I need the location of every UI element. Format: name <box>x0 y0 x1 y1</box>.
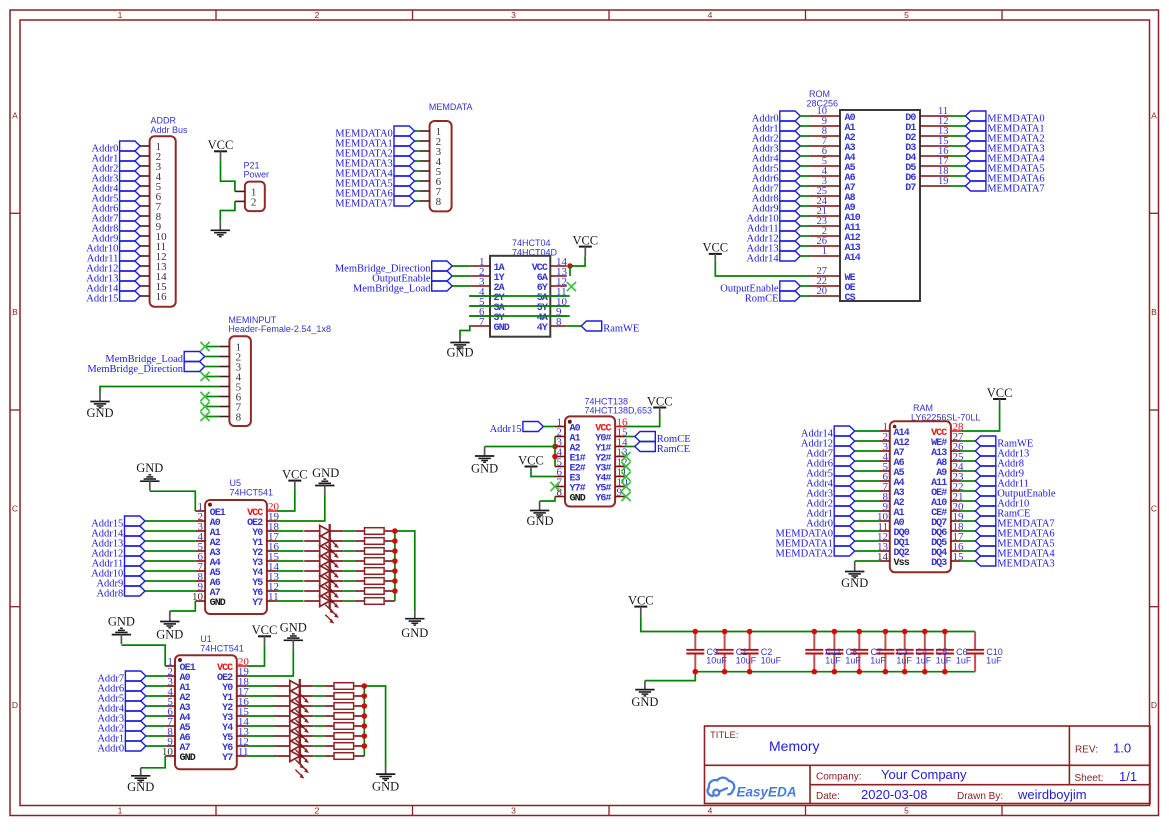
power flag VCC (U1 pin 20) <box>252 623 278 645</box>
svg-text:VCC: VCC <box>702 241 728 255</box>
net flag MEMDATA3 (ROM D3) <box>965 141 1044 154</box>
resistor on U1 Y2 <box>324 703 364 710</box>
svg-text:GND: GND <box>372 780 399 794</box>
power flag VCC (U5 pin 20) <box>282 467 308 489</box>
net flag Addr5 (ROM A5) <box>752 161 810 174</box>
wire U5 Y3 to LED <box>277 560 304 562</box>
svg-text:74HCT541: 74HCT541 <box>230 488 274 498</box>
net flag Addr14 (ADDR pin 15) <box>86 281 140 294</box>
svg-text:VCC: VCC <box>987 386 1013 400</box>
svg-text:GND: GND <box>280 621 307 635</box>
wire LED to resistor (U1 Y0) <box>313 685 324 687</box>
svg-text:GND: GND <box>494 323 510 334</box>
wire VCC to 74HCT04 pin 14 <box>570 256 585 266</box>
resistor on U1 Y4 <box>324 723 364 730</box>
wire LED to resistor (U1 Y1) <box>313 695 324 697</box>
LED on U5 Y3 <box>304 554 343 584</box>
net flag Addr1 (ADDR pin 2) <box>92 151 141 164</box>
net flag Addr7 (ROM A7) <box>752 181 810 194</box>
ground symbol below MEMINPUT wire <box>86 392 113 420</box>
net flag RamCE (74HCT138 Y1#) <box>635 442 690 455</box>
no-connect X 74HCT138 pin 7 (Y7#) <box>550 482 559 491</box>
svg-text:MEMDATA2: MEMDATA2 <box>776 548 834 559</box>
net flag Addr8 (ROM A8) <box>752 191 810 204</box>
ground symbol below U1 <box>127 768 154 794</box>
svg-text:4Y: 4Y <box>537 323 548 334</box>
svg-text:20: 20 <box>817 286 828 297</box>
svg-text:MemBridge_Direction: MemBridge_Direction <box>87 364 183 375</box>
net flag MemBridge_Direction (MEMINPUT pin 3) <box>87 362 204 375</box>
LED on U1 Y3 <box>274 709 313 739</box>
svg-text:GND: GND <box>210 598 226 609</box>
net flag Addr4 (ROM A4) <box>752 151 810 164</box>
wire MEMINPUT pin 5 to ground <box>100 387 219 392</box>
net flag MEMDATA4 (MEMDATA pin 5) <box>335 166 414 179</box>
svg-text:GND: GND <box>127 780 154 794</box>
wire U1 resistor bus to ground <box>364 686 385 767</box>
wire VCC to ROM WE pin 27 <box>715 261 810 276</box>
svg-text:RamWE: RamWE <box>603 323 639 334</box>
svg-text:2: 2 <box>315 10 320 20</box>
no-connect X MEMINPUT pin 6 <box>200 392 219 401</box>
svg-text:D: D <box>12 700 18 710</box>
net flag Addr6 (ROM A6) <box>752 171 810 184</box>
LED on U5 Y0 <box>304 524 343 554</box>
net flag MemBridge_Load (MEMINPUT pin 2) <box>105 352 204 365</box>
junction dots capacitor C7 <box>857 629 863 675</box>
junction dot 74HCT138 pin 3 <box>552 444 558 450</box>
svg-text:DQ3: DQ3 <box>931 558 947 569</box>
wire U5 Y2 to LED <box>277 550 304 552</box>
drawn by weirdboyjim <box>957 787 1087 802</box>
resistor on U5 Y5 <box>355 578 395 585</box>
junction dot U1 resistor bus row 1 <box>362 683 368 689</box>
svg-text:5: 5 <box>904 10 909 20</box>
net flag MemBridge_Load (74HCT04 pin 3) <box>353 281 452 294</box>
net flag MEMDATA0 (MEMDATA pin 1) <box>335 126 414 139</box>
wire VCC to RAM pin 28 <box>961 406 1000 432</box>
wire U5 Y4 to LED <box>277 570 304 572</box>
junction dot U5 resistor bus row 4 <box>392 558 398 564</box>
label capacitor C9 10uF <box>706 647 727 665</box>
svg-text:1uF: 1uF <box>825 655 841 665</box>
net flag MEMDATA7 (ROM D7) <box>965 181 1044 194</box>
net flag Addr8 (RAM pin 25) <box>961 456 1024 469</box>
svg-text:Sheet:: Sheet: <box>1075 773 1104 784</box>
net flag Addr12 (RAM pin 2) <box>801 436 880 449</box>
junction dot U1 resistor bus row 6 <box>362 733 368 739</box>
net flag MEMDATA5 (MEMDATA pin 6) <box>335 176 414 189</box>
LED on U1 Y1 <box>274 689 313 719</box>
svg-text:Header-Female-2.54_1x8: Header-Female-2.54_1x8 <box>228 324 331 334</box>
svg-text:B: B <box>12 307 18 317</box>
svg-text:5: 5 <box>904 806 909 816</box>
net flag Addr6 (RAM pin 4) <box>806 456 880 469</box>
net flag Addr11 (RAM pin 23) <box>961 476 1029 489</box>
net flag MEMDATA1 (RAM pin 12) <box>776 536 881 549</box>
svg-text:2020-03-08: 2020-03-08 <box>861 787 928 802</box>
svg-text:3: 3 <box>511 806 516 816</box>
LED on U5 Y7 <box>304 594 343 624</box>
power flag VCC (capacitor bank) <box>628 593 654 617</box>
net flag Addr11 (ADDR pin 12) <box>87 251 140 264</box>
svg-text:GND: GND <box>631 695 658 709</box>
resistor on U1 Y1 <box>324 693 364 700</box>
svg-text:19: 19 <box>938 176 949 187</box>
label capacitor C11 1uF <box>825 647 841 665</box>
svg-text:U5: U5 <box>230 478 242 488</box>
junction dot 74HCT04 pin 14 <box>567 263 573 269</box>
svg-text:MEMDATA7: MEMDATA7 <box>335 198 393 209</box>
no-connect X 74HCT138 pin 11 <box>621 472 630 481</box>
wire LED to resistor (U5 Y2) <box>343 550 355 552</box>
svg-text:CS: CS <box>845 293 856 304</box>
junction dot U1 resistor bus row 5 <box>362 723 368 729</box>
title block <box>705 726 1151 804</box>
net flag Addr10 (RAM pin 21) <box>961 496 1029 509</box>
capacitor C8 1uF <box>825 632 843 672</box>
resistor on U5 Y7 <box>355 598 395 605</box>
svg-text:GND: GND <box>156 627 183 641</box>
net flag Addr1 (U1 pin 8) <box>97 731 165 744</box>
net flag OutputEnable (RAM pin 22) <box>961 486 1056 499</box>
wire LED to resistor (U5 Y3) <box>343 560 355 562</box>
net flag Addr3 (ADDR pin 4) <box>92 171 141 184</box>
svg-text:1uF: 1uF <box>845 655 861 665</box>
resistor on U1 Y5 <box>324 733 364 740</box>
wire LED to resistor (U1 Y5) <box>313 735 324 737</box>
junction dot U1 resistor bus row 7 <box>362 743 368 749</box>
no-connect X 74HCT138 pin 9 <box>621 492 630 501</box>
wire 3Y to 4A (74HCT04 pins 6-9) <box>469 315 570 317</box>
net flag Addr4 (U1 pin 5) <box>97 701 165 714</box>
power flag VCC (P21) <box>208 138 234 161</box>
svg-text:U1: U1 <box>200 634 212 644</box>
net flag Addr15 (U5 pin 2) <box>91 516 195 529</box>
net flag RamCE (RAM pin 20) <box>961 506 1031 519</box>
capacitor C7 1uF <box>850 632 868 672</box>
junction dots capacitor C3 <box>883 629 889 675</box>
net flag Addr1 (RAM pin 9) <box>806 506 880 519</box>
net flag MEMDATA6 (RAM pin 18) <box>961 526 1055 539</box>
net flag MEMDATA6 (MEMDATA pin 7) <box>335 186 414 199</box>
IC RAM LY62256SL-70LL <box>877 403 980 572</box>
wire LED to resistor (U1 Y6) <box>313 745 324 747</box>
junction dot U5 resistor bus row 5 <box>392 568 398 574</box>
net flag MEMDATA2 (ROM D2) <box>965 131 1044 144</box>
resistor on U5 Y1 <box>355 538 395 545</box>
net flag Addr13 (ROM A13) <box>747 241 810 254</box>
net flag Addr9 (U5 pin 8) <box>96 576 195 589</box>
no-connect X 74HCT138 pin 13 <box>621 452 630 461</box>
wire LED to resistor (U5 Y7) <box>343 600 355 602</box>
wire LED to resistor (U1 Y4) <box>313 725 324 727</box>
net flag Addr14 (ROM A14) <box>747 251 810 264</box>
svg-text:VCC: VCC <box>208 138 234 152</box>
LED on U5 Y4 <box>304 564 343 594</box>
wire U1 Y1 to LED <box>247 695 275 697</box>
LED on U1 Y5 <box>274 729 313 759</box>
wire RAM Vss pin 14 to ground <box>855 560 880 562</box>
net flag Addr13 (U5 pin 4) <box>91 536 195 549</box>
wire ground to 74HCT138 A2 <box>485 446 555 448</box>
capacitor C1 10uF <box>716 632 734 672</box>
svg-text:Memory: Memory <box>769 738 820 754</box>
net flag Addr2 (U1 pin 7) <box>97 721 165 734</box>
LED on U1 Y2 <box>274 699 313 729</box>
net flag Addr3 (ROM A3) <box>752 141 810 154</box>
svg-text:Addr Bus: Addr Bus <box>151 125 189 135</box>
power flag VCC (74HCT04 pin 14) <box>572 233 598 256</box>
svg-text:GND: GND <box>401 626 428 640</box>
junction dot U5 resistor bus row 2 <box>392 538 398 544</box>
svg-text:Your Company: Your Company <box>881 767 967 782</box>
LED on U1 Y0 <box>274 679 313 709</box>
net flag Addr14 (U5 pin 3) <box>91 526 195 539</box>
wire LED to resistor (U1 Y3) <box>313 715 324 717</box>
ground symbol above U5 (OE1) <box>136 461 163 491</box>
wire U5 Y7 to LED <box>277 600 304 602</box>
wire U5 Y6 to LED <box>277 590 304 592</box>
wire ground to U5 pin 19 <box>277 495 325 521</box>
wire VCC to U5 pin 20 <box>277 489 295 511</box>
net flag MEMDATA4 (ROM D4) <box>965 151 1045 164</box>
capacitor C10 1uF <box>966 632 984 672</box>
IC U1 74HCT541 buffer <box>162 634 250 769</box>
svg-text:MemBridge_Load: MemBridge_Load <box>353 283 431 294</box>
net flag Addr10 (ROM A10) <box>747 211 810 224</box>
svg-text:A: A <box>12 111 18 121</box>
svg-text:8: 8 <box>436 196 442 208</box>
net flag MemBridge_Direction (74HCT04 pin 1) <box>335 261 452 274</box>
resistor on U5 Y3 <box>355 558 395 565</box>
IC ROM 28C256 <box>807 89 966 304</box>
wire capacitor rail to ground <box>645 672 695 681</box>
svg-text:1uF: 1uF <box>936 655 952 665</box>
revision REV 1.0 <box>1075 740 1131 755</box>
LED on U1 Y7 <box>274 749 313 779</box>
svg-text:1uF: 1uF <box>956 655 972 665</box>
wire P21 pin 2 to ground <box>220 201 235 221</box>
svg-text:Power: Power <box>244 170 270 180</box>
wire ground to U1 pin 19 <box>247 649 293 676</box>
wire 74HCT04 GND pin 7 to ground <box>460 326 471 337</box>
svg-text:GND: GND <box>446 346 473 360</box>
net flag MEMDATA3 (RAM pin 15) <box>961 556 1055 569</box>
net flag Addr9 (ADDR pin 10) <box>92 231 141 244</box>
svg-text:REV:: REV: <box>1075 744 1098 755</box>
svg-text:1/1: 1/1 <box>1119 769 1137 784</box>
svg-text:8: 8 <box>556 316 562 328</box>
svg-text:weirdboyjim: weirdboyjim <box>1017 787 1087 802</box>
wire 2Y to 5A (74HCT04 pins 4-11) <box>469 295 570 297</box>
capacitor C4 1uF <box>896 632 914 672</box>
capacitor C3 1uF <box>876 632 894 672</box>
ground symbol right of U1 LEDs <box>372 767 399 794</box>
net flag Addr3 (U1 pin 6) <box>97 711 165 724</box>
svg-text:B: B <box>1151 307 1157 317</box>
net flag Addr1 (ROM A1) <box>752 121 810 134</box>
net flag Addr10 (U5 pin 7) <box>91 566 195 579</box>
svg-text:VCC: VCC <box>518 453 544 467</box>
svg-text:GND: GND <box>86 406 113 420</box>
LED on U5 Y6 <box>304 584 343 614</box>
svg-text:74HCT138D,653: 74HCT138D,653 <box>585 406 653 416</box>
IC 74HCT138 (74HCT138D,653 decoder) <box>555 396 652 506</box>
junction dots capacitor C9 <box>693 629 699 675</box>
net flag Addr13 (ADDR pin 14) <box>86 271 140 284</box>
capacitor C11 1uF <box>805 632 823 672</box>
wire U5 resistor bus <box>394 531 396 601</box>
label capacitor C1 10uF <box>736 647 757 665</box>
net flag MEMDATA7 (MEMDATA pin 8) <box>335 196 414 209</box>
svg-text:10uF: 10uF <box>761 655 782 665</box>
wire U5 Y1 to LED <box>277 540 304 542</box>
capacitor C2 10uF <box>741 632 759 672</box>
label capacitor C4 1uF <box>916 647 932 665</box>
svg-text:8: 8 <box>236 412 242 424</box>
net flag MEMDATA7 (RAM pin 19) <box>961 516 1055 529</box>
junction dot 74HCT138 pin 4 <box>552 454 558 460</box>
net flag RomCE (ROM CS pin 20) <box>745 291 810 304</box>
junction dots capacitor C4 <box>902 629 908 675</box>
IC 74HCT04 (74HCT04D hex inverter) <box>471 238 568 337</box>
power flag VCC (RAM pin 28) <box>987 386 1013 406</box>
svg-text:Y7: Y7 <box>252 598 263 609</box>
wire tying 74HCT138 pins 2-5 (A1,A2,E1#,E2#) <box>554 437 556 467</box>
net flag Addr8 (ADDR pin 9) <box>92 221 141 234</box>
ground symbol above U1 OE2 <box>280 621 307 650</box>
wire VCC to 74HCT138 pin 16 <box>625 415 660 427</box>
no-connect X MEMINPUT pin 8 <box>200 412 219 421</box>
wire U5 Y5 to LED <box>277 580 304 582</box>
wire VCC to capacitor rail <box>641 617 975 632</box>
title text Memory <box>710 730 820 754</box>
svg-text:VCC: VCC <box>628 593 654 607</box>
junction dot U1 resistor bus row 3 <box>362 703 368 709</box>
net flag MEMDATA5 (RAM pin 17) <box>961 536 1055 549</box>
wire U5 resistor bus to ground <box>395 531 415 611</box>
net flag Addr12 (ROM A12) <box>747 231 810 244</box>
svg-text:Date:: Date: <box>816 791 840 802</box>
wire MemBridge_Load to MEMINPUT pin 2 <box>205 356 220 358</box>
svg-text:Vss: Vss <box>894 558 910 569</box>
svg-text:10: 10 <box>192 591 204 603</box>
junction dot U5 resistor bus row 6 <box>392 578 398 584</box>
net flag Addr9 (ROM A9) <box>752 201 810 214</box>
svg-text:74HCT541: 74HCT541 <box>200 644 244 654</box>
net flag Addr0 (U1 pin 9) <box>97 741 165 754</box>
svg-text:16: 16 <box>156 291 168 303</box>
net flag Addr2 (ROM A2) <box>752 131 810 144</box>
wire MemBridge_Load to pin 3 <box>452 285 470 287</box>
net flag Addr5 (U1 pin 4) <box>97 691 165 704</box>
svg-text:1: 1 <box>822 246 827 257</box>
wire VCC to 74HCT138 pin 6 <box>531 472 555 477</box>
wire 74HCT138 GND pin 8 to ground <box>540 497 555 502</box>
junction dot U1 resistor bus row 2 <box>362 693 368 699</box>
net flag Addr2 (ADDR pin 3) <box>92 161 141 174</box>
net flag MEMDATA2 (RAM pin 13) <box>776 546 881 559</box>
wire LED to resistor (U1 Y2) <box>313 705 324 707</box>
svg-text:GND: GND <box>136 461 163 475</box>
svg-text:C: C <box>1151 504 1157 514</box>
junction dots capacitor C6 <box>942 629 948 675</box>
wire U1 Y0 to LED <box>247 685 275 687</box>
svg-text:3: 3 <box>511 10 516 20</box>
svg-text:Addr15: Addr15 <box>86 293 118 304</box>
svg-text:2: 2 <box>315 806 320 816</box>
junction dot U1 resistor bus row 4 <box>362 713 368 719</box>
svg-text:1uF: 1uF <box>896 655 912 665</box>
no-connect X MEMINPUT pin 4 <box>200 372 219 381</box>
net flag OutputEnable (ROM OE pin 22) <box>720 281 810 294</box>
net flag MEMDATA0 (ROM D0) <box>965 111 1044 124</box>
svg-text:4: 4 <box>708 10 713 20</box>
EasyEDA logo <box>708 778 797 800</box>
ground symbol below 74HCT04 <box>446 337 473 360</box>
svg-text:1uF: 1uF <box>986 655 1002 665</box>
net flag Addr0 (RAM pin 10) <box>806 516 880 529</box>
svg-text:Addr0: Addr0 <box>97 743 124 754</box>
svg-text:GND: GND <box>312 466 339 480</box>
net flag Addr7 (RAM pin 3) <box>806 446 880 459</box>
svg-text:1.0: 1.0 <box>1113 740 1131 755</box>
ground symbol below RAM <box>841 561 868 590</box>
connector P21 Power (2-pin) <box>235 160 269 211</box>
wire LED to resistor (U5 Y6) <box>343 590 355 592</box>
label capacitor C6 1uF <box>956 647 972 665</box>
svg-text:Company:: Company: <box>816 772 862 783</box>
resistor on U1 Y6 <box>324 743 364 750</box>
svg-text:Addr15: Addr15 <box>490 424 522 435</box>
ground symbol below U5 <box>156 611 183 641</box>
no-connect X 74HCT138 pin 10 <box>621 482 630 491</box>
svg-text:GND: GND <box>471 461 498 475</box>
svg-text:C: C <box>12 504 18 514</box>
ground symbol right of U5 LEDs <box>401 611 428 640</box>
net flag Addr15 (ADDR pin 16) <box>86 291 140 304</box>
ground symbol above U5 OE2 <box>312 466 339 495</box>
wire U1 Y4 to LED <box>247 725 275 727</box>
LED on U1 Y6 <box>274 739 313 769</box>
svg-text:GND: GND <box>841 576 868 590</box>
wire LED to resistor (U5 Y0) <box>343 530 355 532</box>
wire MemBridge_Direction to MEMINPUT pin 3 <box>205 366 220 368</box>
svg-text:Y7: Y7 <box>222 753 233 764</box>
wire 74HCT04 pin 14 to pin 13 (6A tied to VCC) <box>569 266 571 276</box>
net flag RomCE (74HCT138 Y0#) <box>635 432 691 445</box>
svg-text:A: A <box>1151 111 1157 121</box>
no-connect X 74HCT138 pin 12 <box>621 462 630 471</box>
wire U1 GND pin 10 to ground <box>141 756 166 768</box>
net flag MEMDATA1 (ROM D1) <box>965 121 1044 134</box>
svg-text:VCC: VCC <box>572 233 598 247</box>
net flag Addr14 (RAM pin 1) <box>801 426 880 439</box>
svg-text:GND: GND <box>180 753 196 764</box>
wire U1 Y3 to LED <box>247 715 275 717</box>
wire U1 Y7 to LED <box>247 755 275 757</box>
label capacitor C5 1uF <box>936 647 952 665</box>
svg-text:1uF: 1uF <box>916 655 932 665</box>
net flag Addr11 (ROM A11) <box>747 221 810 234</box>
no-connect X 74HCT04 pin 12 (6Y) <box>567 282 576 291</box>
junction dot U5 resistor bus row 3 <box>392 548 398 554</box>
net flag MEMDATA1 (MEMDATA pin 2) <box>335 136 414 149</box>
svg-text:GND: GND <box>526 514 553 528</box>
wire LED to resistor (U1 Y7) <box>313 755 324 757</box>
junction dots capacitor C1 <box>722 629 728 675</box>
